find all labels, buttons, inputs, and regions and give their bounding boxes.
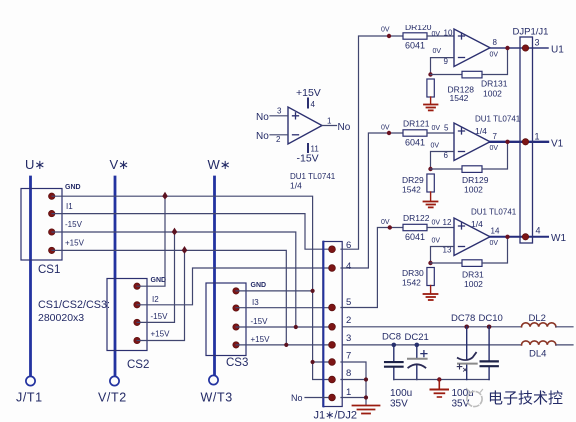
svg-text:W/T3: W/T3 [201,391,233,405]
op-amp U1b pins 5/6/7 [431,115,521,161]
wire op-amp U minus input [431,58,455,75]
wire I3 net CS3 to J1 pin 5 [236,307,330,309]
svg-text:DC21: DC21 [405,332,429,343]
svg-text:1542: 1542 [450,93,469,103]
wire GND branch CS3 [236,290,313,292]
svg-text:+15V: +15V [65,239,85,248]
svg-text:DL4: DL4 [529,349,546,360]
wire +15V branch CS2 [137,250,185,340]
svg-text:J/T1: J/T1 [16,391,43,405]
label DU1 TL0741 spare [290,172,336,191]
svg-text:-15V: -15V [297,153,319,165]
resistor DR131 1002 feedback [431,48,508,99]
svg-text:1: 1 [535,132,540,142]
svg-text:J1∗/DJ2: J1∗/DJ2 [314,410,357,422]
svg-text:5: 5 [346,297,351,308]
svg-text:V1: V1 [551,139,564,150]
svg-text:DC8: DC8 [382,332,401,343]
svg-text:1542: 1542 [402,185,421,195]
wire +15V rail pin3 to DL4 [343,344,522,346]
label CS1/CS2/CS3 value [38,299,110,324]
svg-text:1002: 1002 [464,279,483,289]
svg-text:7: 7 [493,132,498,141]
svg-text:DC78: DC78 [451,313,475,324]
wire GND branch CS2 [137,196,165,286]
wire U output to U1 [490,47,548,49]
svg-text:0V: 0V [490,240,499,247]
svg-text:35V: 35V [390,399,408,410]
phase line W* [208,157,231,376]
svg-text:CS3: CS3 [226,357,248,369]
node W output junctions [505,235,509,239]
wire pin6 to op-amp U input [341,36,403,249]
wire -15V rail pin2 to DL2 [343,326,522,328]
wire V output to V1 [490,141,548,143]
svg-text:1/4: 1/4 [290,181,302,191]
ground below DR128 [424,105,438,111]
svg-text:0V: 0V [381,27,390,34]
ground below DR30 [424,294,438,300]
svg-text:W∗: W∗ [208,157,231,172]
node No - input [256,131,288,144]
svg-text:No: No [256,112,269,123]
svg-text:0V: 0V [432,125,441,132]
wire GND branch to J1 pin 7 [313,361,330,363]
wire W output to W1 [490,236,548,238]
connector CS2 [107,277,170,371]
wire -15V row CS3 to J1 pin 2 [236,326,330,328]
svg-text:1: 1 [327,117,332,126]
wire -15V branch CS2 [137,232,175,322]
wire +15V row CS3 to J1 pin 3 [236,344,330,346]
svg-text:DR121: DR121 [403,119,430,129]
svg-text:1002: 1002 [464,185,483,195]
resistor DR31 1002 feedback [431,237,508,289]
connector DJP1/J1 [513,27,549,244]
wire op-amp V minus input [431,152,455,170]
svg-text:1002: 1002 [483,89,502,99]
node W feedback junction [428,261,432,265]
wire pin4 to op-amp V input [341,133,403,268]
svg-text:DR30: DR30 [402,268,424,278]
node 0V U input [381,27,391,39]
svg-text:+15V: +15V [296,87,321,99]
phase line U* [25,157,45,377]
svg-text:DR29: DR29 [402,175,424,185]
svg-text:No: No [291,393,303,403]
svg-text:I1: I1 [66,202,73,211]
node No output [322,117,351,134]
svg-text:6041: 6041 [405,138,425,148]
svg-text:3: 3 [346,333,351,344]
svg-text:100u: 100u [390,388,412,399]
resistor DR30 1542 [402,268,434,294]
wire cap ground rail [394,379,489,381]
svg-text:0V: 0V [490,145,499,152]
wire I1 net CS1 to J1 pin 6 [52,214,330,250]
connector CS3 [206,282,270,369]
svg-text:CS1/CS2/CS3:: CS1/CS2/CS3: [38,299,110,311]
svg-text:0V: 0V [490,52,499,59]
svg-text:4: 4 [536,226,541,236]
ground filter caps [431,377,449,397]
node No pin1 [291,393,328,403]
wire pins 7/8/1 to ground [341,362,366,405]
svg-text:2: 2 [276,135,281,144]
label 100u 35V right [452,388,474,410]
svg-text:DR129: DR129 [462,175,489,185]
svg-text:DU1 TL0741: DU1 TL0741 [475,115,521,124]
node No + input [256,107,288,124]
wire DR122 to op-amp + [427,227,454,229]
svg-text:0V: 0V [381,125,390,132]
svg-text:+15V: +15V [251,335,271,344]
svg-text:8: 8 [346,368,351,379]
svg-text:GND: GND [251,282,267,289]
svg-text:0V: 0V [431,143,440,150]
capacitor DC21 [405,332,429,380]
label 100u 35V left [390,388,412,410]
svg-text:3: 3 [277,107,282,116]
node U output junctions [505,46,509,50]
svg-text:U1: U1 [551,45,564,56]
op-amp U1c pins 12/13/14 [432,208,517,256]
svg-text:2: 2 [346,315,351,326]
svg-text:V∗: V∗ [110,157,130,172]
node V output junctions [505,140,509,144]
svg-text:-15V: -15V [151,312,169,321]
svg-text:U∗: U∗ [25,157,45,172]
wire GND net CS1 to J1 pins 7/8 [52,196,330,379]
node GND junctions [162,192,315,364]
svg-text:W1: W1 [551,233,566,244]
node -15V junctions [172,228,298,330]
svg-text:No: No [256,131,269,142]
svg-text:12: 12 [443,218,452,227]
node 0V W input [381,219,392,230]
svg-text:10: 10 [444,29,453,38]
node gnd junctions right of J1 [364,377,368,399]
svg-text:DC10: DC10 [479,313,503,324]
svg-text:DJP1/J1: DJP1/J1 [513,27,549,38]
op-amp U1a pins 10/9/8 [432,29,499,67]
svg-text:7: 7 [346,351,351,362]
capacitor DC8 [382,332,403,380]
svg-text:280020x3: 280020x3 [38,312,84,324]
terminal U/T1 [16,376,43,404]
node V feedback junction [428,167,432,171]
ground below J1 [353,406,380,414]
connector J1*/DJ2 [314,240,357,422]
inductor DL4 [522,341,574,360]
svg-text:DR122: DR122 [403,213,430,223]
svg-text:4: 4 [346,261,351,272]
wire I2 net CS2 to J1 pin 4 [137,268,330,305]
wire DR120 to op-amp + [427,35,454,37]
resistor DR129 1002 feedback [431,142,508,195]
svg-text:0V: 0V [433,48,442,55]
svg-text:6041: 6041 [405,41,425,51]
svg-text:GND: GND [65,184,81,191]
svg-text:CS1: CS1 [38,264,60,276]
svg-text:DR31: DR31 [462,270,484,280]
svg-text:9: 9 [444,57,449,66]
terminal W/T3 [201,375,233,404]
svg-text:14: 14 [491,227,500,236]
node U feedback junction [428,72,432,76]
svg-text:DR131: DR131 [481,79,508,89]
svg-text:DU1 TL0741: DU1 TL0741 [471,208,517,217]
svg-text:1/4: 1/4 [475,126,487,136]
node +15V junctions [182,246,289,347]
svg-text:GND: GND [151,277,167,284]
wire op-amp W minus input [431,247,455,264]
node 0V V input [381,125,391,136]
wire +15V net CS1 down to pin3 row [52,250,286,345]
svg-text:6041: 6041 [405,232,425,242]
wire pin5 to op-amp W input [341,228,403,308]
svg-text:I3: I3 [252,298,259,307]
resistor DR29 1542 [402,174,434,201]
connector CS1 [21,184,85,276]
svg-text:8: 8 [493,38,498,47]
resistor DR121 6041 [403,119,430,148]
svg-text:-15V: -15V [251,317,269,326]
label +15V [296,87,321,109]
inductor DL2 [522,313,574,327]
svg-text:0V: 0V [432,31,441,38]
resistor DR122 6041 [403,213,430,242]
label -15V [297,144,320,165]
svg-text:1/4: 1/4 [471,219,483,229]
svg-text:5: 5 [444,124,449,133]
svg-text:0V: 0V [432,220,441,227]
svg-text:0V: 0V [432,238,441,245]
svg-text:+15V: +15V [151,330,171,339]
wire -15V net CS1 down to pin2 row [52,232,296,327]
capacitor DC10 [479,313,503,380]
svg-text:No: No [338,122,351,133]
wire DR121 to op-amp + [427,132,454,134]
ground below DR29 [424,202,438,208]
svg-text:4: 4 [311,100,316,109]
resistor DR120 6041 [398,14,432,51]
resistor DR128 1542 [427,79,474,104]
watermark logo circle [467,389,483,407]
svg-text:电子技术控: 电子技术控 [488,390,563,407]
svg-text:1542: 1542 [402,278,421,288]
op-amp DU1 spare pins 3/2/1 [288,107,322,144]
svg-text:0V: 0V [381,219,390,226]
svg-text:-15V: -15V [65,220,83,229]
svg-text:CS2: CS2 [127,359,149,371]
svg-text:V/T2: V/T2 [98,391,127,405]
svg-text:I2: I2 [152,295,159,304]
terminal V/T2 [98,376,127,404]
svg-text:6: 6 [444,151,449,160]
capacitor DC78 [451,313,477,380]
svg-text:3: 3 [535,38,540,48]
svg-text:1: 1 [346,387,351,398]
phase line V* [110,157,130,377]
